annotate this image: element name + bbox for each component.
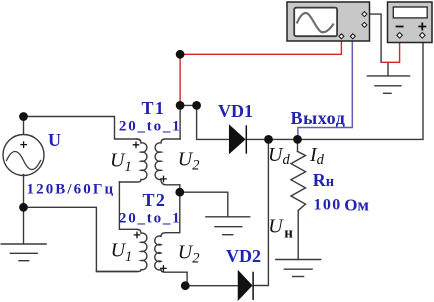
svg-text:100: 100 — [314, 197, 342, 214]
svg-text:20_to_1: 20_to_1 — [119, 119, 182, 135]
svg-text:Выход: Выход — [291, 108, 346, 128]
svg-text:VD1: VD1 — [218, 101, 253, 121]
svg-text:Ом: Ом — [344, 195, 369, 214]
svg-text:T1: T1 — [142, 98, 166, 118]
svg-text:120В/60Гц: 120В/60Гц — [27, 181, 116, 197]
svg-text:VD2: VD2 — [226, 246, 261, 266]
svg-text:T2: T2 — [143, 190, 167, 210]
svg-text:U: U — [48, 130, 61, 150]
svg-text:20_to_1: 20_to_1 — [119, 211, 182, 227]
